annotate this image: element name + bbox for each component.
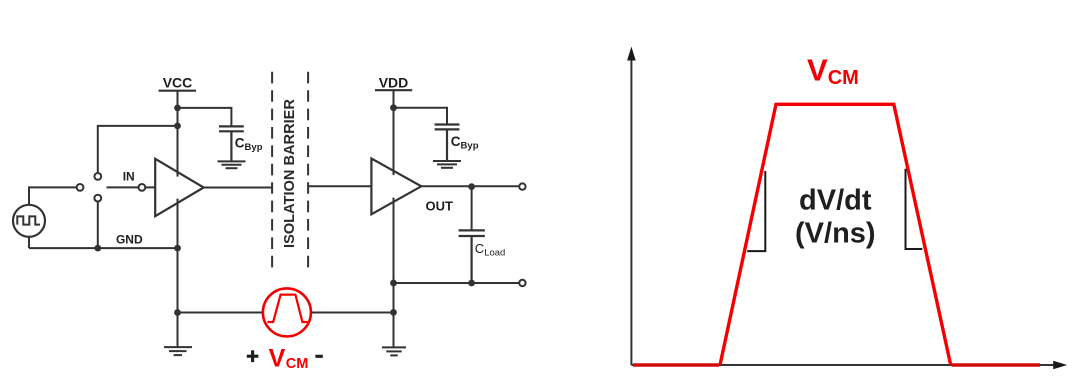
wire IN contact to buffer U1 input xyxy=(145,186,155,188)
node VCC/CByp junction xyxy=(174,105,181,112)
svg-text:(V/ns): (V/ns) xyxy=(795,218,876,250)
wire barrier to buffer U2 input xyxy=(308,185,371,187)
terminal bottom (open circle) xyxy=(519,280,525,286)
VCC supply rail xyxy=(159,75,197,91)
slope marker (falling edge) xyxy=(906,169,923,249)
node VDD/CByp junction xyxy=(390,104,397,111)
svg-text:V: V xyxy=(269,344,286,372)
wire V_CM line left segment xyxy=(178,312,263,314)
node U2 bottom rail junction xyxy=(390,280,397,287)
node U1 GND junction xyxy=(174,245,181,252)
terminal OUT (open circle) xyxy=(519,183,525,189)
wire lower contact to GND rail xyxy=(97,202,99,249)
ground (below left C_Byp) xyxy=(218,161,246,168)
capacitor C_Byp (right) xyxy=(435,125,460,161)
switch S1 upper contact (VCC) xyxy=(94,173,101,180)
wire U2 bottom to rail xyxy=(393,198,395,313)
svg-text:GND: GND xyxy=(116,233,143,247)
wire VCC to U1 top xyxy=(177,91,179,177)
buffer U2 xyxy=(371,159,421,215)
label plus sign xyxy=(247,350,259,362)
switch S1 pole contact xyxy=(77,184,84,191)
switch S1 IN contact xyxy=(139,184,146,191)
svg-text:IN: IN xyxy=(123,170,135,184)
wire V_CM line right segment xyxy=(311,312,394,314)
V_CM waveform baseline right (red over axis) xyxy=(952,363,1040,366)
isolation barrier right dashed line xyxy=(307,72,309,268)
signal source V1 (square-wave generator) xyxy=(13,205,45,237)
buffer U1 xyxy=(155,159,204,216)
wire U1 bottom to GND rail xyxy=(177,199,179,249)
node V_CM right junction xyxy=(390,309,397,316)
node switch/GND junction xyxy=(94,245,101,252)
capacitor C_Load xyxy=(459,230,485,283)
chart x-axis xyxy=(631,361,1067,370)
wire VCC to capacitor C_Byp (left) xyxy=(178,108,232,126)
switch lever xyxy=(107,186,139,188)
svg-text:ISOLATION BARRIER: ISOLATION BARRIER xyxy=(282,99,298,248)
node bottom rail / C_Load junction xyxy=(468,280,475,287)
switch S1 lower contact (GND) xyxy=(94,195,101,202)
label dV/dt (V/ns) xyxy=(795,185,876,250)
node OUT/C_Load junction xyxy=(468,183,475,190)
wire U1 output to barrier xyxy=(204,187,272,189)
wire OUT to C_Load xyxy=(471,187,473,231)
V_CM waveform (red trapezoid pulse) xyxy=(720,104,951,365)
VDD supply rail xyxy=(375,74,412,90)
svg-text:CM: CM xyxy=(286,356,309,372)
ground (bottom left) xyxy=(164,347,192,355)
svg-text:OUT: OUT xyxy=(426,199,454,214)
chart y-axis xyxy=(627,47,636,366)
wire GND rail down to V_CM line xyxy=(177,248,179,347)
wire VDD to U2 top xyxy=(393,90,395,175)
GND rail wire xyxy=(29,247,178,249)
wire source bottom to GND rail xyxy=(28,237,30,248)
svg-text:VDD: VDD xyxy=(379,74,409,90)
slope marker (rising edge) xyxy=(747,171,765,251)
wire U2 down to ground xyxy=(393,312,395,347)
svg-text:dV/dt: dV/dt xyxy=(799,185,872,217)
node V_CM left junction xyxy=(174,309,181,316)
wire source top to switch pole xyxy=(29,187,77,205)
ground (bottom right) xyxy=(382,347,406,355)
wire upper contact to VCC branch xyxy=(98,126,178,173)
bottom rail wire xyxy=(394,282,520,284)
capacitor C_Byp (left) xyxy=(219,126,244,161)
wire VDD to capacitor C_Byp (right) xyxy=(394,108,448,125)
isolation barrier left dashed line xyxy=(271,72,273,268)
source V_CM (red transient generator) xyxy=(263,288,311,336)
wire U2 output xyxy=(421,185,519,187)
ground (below right C_Byp) xyxy=(433,161,461,168)
svg-text:VCC: VCC xyxy=(163,75,193,91)
node VCC/switch junction xyxy=(174,123,181,130)
label minus sign xyxy=(315,355,322,358)
V_CM waveform baseline left (red over axis) xyxy=(633,363,719,366)
